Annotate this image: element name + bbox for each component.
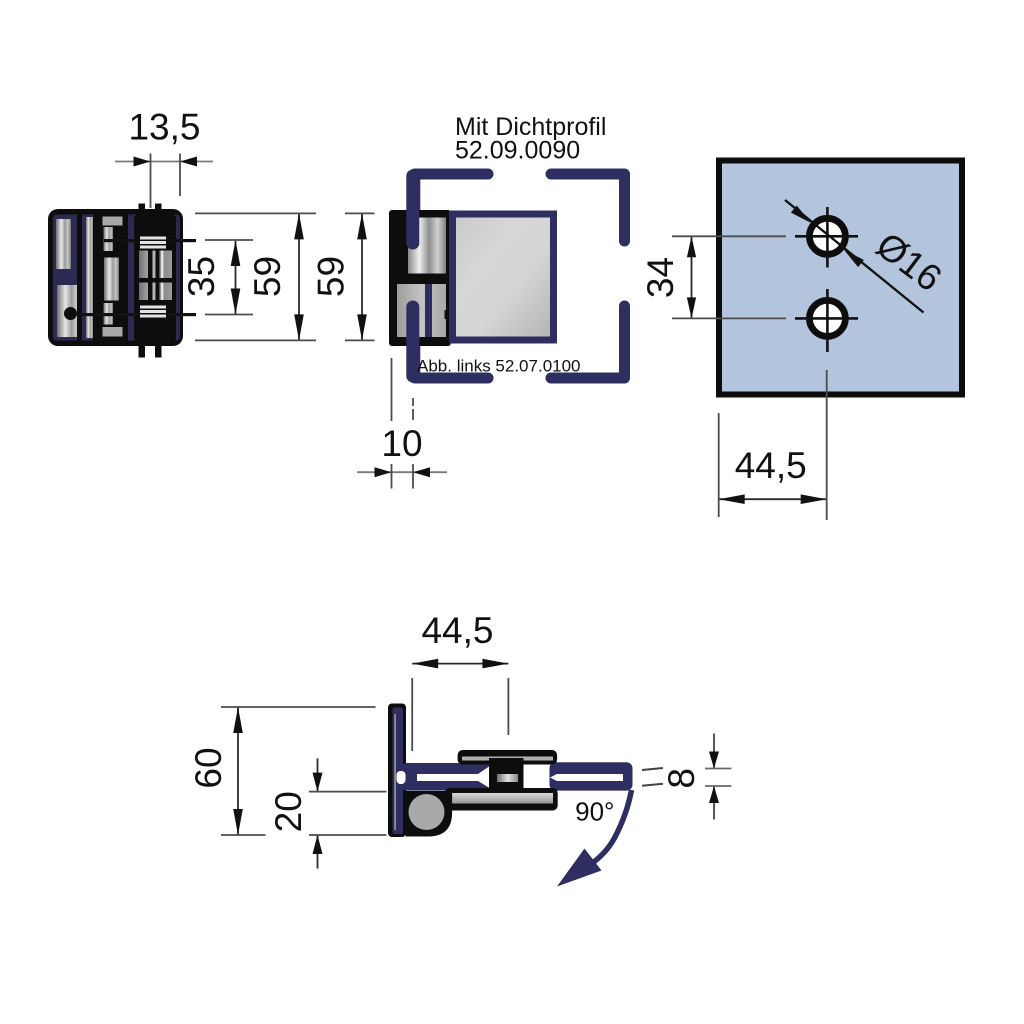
side view: middle knuckle gray section [139, 251, 172, 301]
dimension 34 line and arrows [687, 236, 696, 318]
side view: pin tick lower row [79, 313, 196, 316]
section: pivot housing [406, 791, 453, 837]
dimension 10 line and arrows [357, 467, 447, 477]
dimension 44,5 plate label [735, 445, 807, 486]
section: wall profile [388, 704, 406, 838]
dimension 44,5 plate line and arrows [719, 494, 827, 504]
side view: black divider bar [77, 215, 82, 341]
dimension 34 extension lines [672, 236, 786, 318]
dimension 13,5 line and arrows [115, 157, 213, 167]
svg-text:20: 20 [268, 791, 309, 832]
dimension 59 front-view extension lines [345, 213, 375, 340]
section: pivot slot white notch [397, 771, 406, 784]
svg-text:52.09.0090: 52.09.0090 [455, 137, 580, 165]
label Mit Dichtprofil [455, 113, 606, 165]
dimension 10 label [381, 423, 422, 464]
dimension 8 line and arrows [709, 734, 719, 820]
side view: pin tick upper row [104, 239, 196, 242]
diameter 16 leader line [785, 200, 924, 313]
svg-text:34: 34 [640, 257, 681, 298]
dimension 44,5 plate extension lines [719, 370, 827, 520]
label Abb. links 52.07.0100 [417, 357, 581, 376]
dimension 8 tick marks [705, 769, 732, 787]
side view: black band [93, 215, 102, 341]
dimension 13,5 label [128, 107, 200, 148]
dimension 8 extension marks [642, 768, 663, 786]
section: clamp center block [489, 758, 524, 790]
section: pivot pin circle [409, 794, 445, 830]
swing arrow head [557, 849, 602, 887]
dimension 10 tick marks [392, 464, 414, 489]
svg-text:8: 8 [661, 768, 702, 789]
dimension 10 extension lines [392, 358, 414, 421]
front view: small black notch on right edge [445, 310, 452, 319]
dimension 20 extension lines [309, 792, 387, 835]
dimension 34 label [640, 257, 681, 298]
svg-text:44,5: 44,5 [735, 445, 807, 486]
dimension 60 line and arrows [233, 707, 243, 835]
label 90 degrees [575, 797, 614, 827]
dimension 13,5 extension lines [151, 154, 181, 209]
dimension 8 label [661, 768, 702, 789]
front view: hinge body black [389, 210, 451, 346]
seal profile frame bottom-left bracket [415, 307, 488, 378]
section: clamp bottom jaw [445, 788, 558, 811]
section: glass gap centerline left [417, 766, 491, 789]
side view: knuckle column background [134, 213, 176, 345]
swing arc 90 degrees [591, 790, 632, 864]
front view: upper gray clamp block [408, 218, 446, 274]
svg-text:90°: 90° [575, 797, 614, 827]
dimension 59 front-view line and arrows [357, 213, 367, 340]
front view: lower gray block [397, 284, 446, 337]
svg-text:59: 59 [311, 256, 352, 297]
dimension 35 line and arrows [231, 240, 241, 315]
front view: seal profile left leg over body [406, 176, 419, 376]
seal profile frame top-left bracket [415, 174, 488, 242]
seal profile frame bottom-right bracket [551, 306, 625, 378]
section: glass pane left segment [402, 763, 491, 791]
dimension 35 extension lines [205, 240, 253, 315]
side view: narrow gray bar [86, 217, 93, 338]
front view: navy stripe on lower block [425, 284, 432, 337]
side view: hinge body outline [48, 209, 183, 346]
plate lower hole crosshair [795, 289, 858, 352]
mounting plate square [719, 161, 962, 395]
svg-text:35: 35 [181, 256, 222, 297]
svg-text:Abb. links 52.07.0100: Abb. links 52.07.0100 [417, 357, 581, 376]
dimension 60 label [188, 747, 229, 788]
svg-text:10: 10 [381, 423, 422, 464]
side view: bottom knuckle gray dashes [140, 306, 166, 318]
section: glass gap centerline right [550, 774, 623, 781]
side view: left clamp plate gray bars [56, 219, 81, 337]
plate upper hole crosshair [795, 207, 858, 268]
dimension 35 label [181, 256, 222, 297]
dimension 59 side-view line and arrows [294, 213, 304, 340]
dimension 59 side-view extension lines [195, 213, 316, 340]
dimension 20 label [268, 791, 309, 832]
svg-text:13,5: 13,5 [128, 107, 200, 148]
section: clamp top jaw [458, 750, 557, 765]
plate lower hole [809, 300, 845, 336]
section: clamp gasket [497, 774, 518, 782]
dimension 44,5 section label [421, 610, 493, 651]
svg-text:44,5: 44,5 [421, 610, 493, 651]
dimension 60 extension lines [221, 707, 376, 835]
diameter 16 label [869, 224, 950, 299]
section: glass pane right segment [550, 762, 633, 790]
plate upper hole [809, 218, 845, 254]
svg-text:59: 59 [247, 256, 288, 297]
dimension 59 front-view label [311, 256, 352, 297]
dimension 20 line and arrows [313, 758, 323, 868]
side view: middle clamp column background [101, 215, 128, 341]
dimension 59 side-view label [247, 256, 288, 297]
side view: middle column gray caps and screws [103, 217, 123, 337]
front view: glass pane square [453, 214, 554, 340]
dimension 44,5 section line and arrows [412, 659, 508, 669]
dimension 44,5 section extension lines [412, 678, 508, 751]
seal profile frame top-right bracket [551, 174, 625, 241]
side view: top knuckle gray dashes [140, 237, 166, 249]
svg-text:60: 60 [188, 747, 229, 788]
side view: hinge pin stubs below body [139, 344, 162, 358]
side view: screw hole lower-left [64, 307, 77, 320]
side view: hinge pin stubs above body [139, 204, 162, 214]
